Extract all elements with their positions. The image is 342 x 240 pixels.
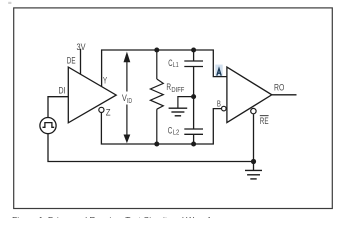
- junction dot capacitor midpoint: [191, 94, 196, 99]
- svg-text:ID: ID: [127, 98, 132, 105]
- svg-text:Y: Y: [103, 75, 108, 86]
- junction dot RDIFF top: [154, 48, 159, 53]
- wire RE to ground: [253, 114, 255, 161]
- svg-text:Z: Z: [106, 107, 111, 118]
- resistor RDIFF: [150, 50, 163, 144]
- svg-text:DIFF: DIFF: [171, 87, 184, 94]
- svg-text:L1: L1: [173, 62, 179, 69]
- svg-text:L2: L2: [173, 130, 180, 137]
- svg-text:DI: DI: [59, 86, 66, 97]
- svg-text:RE: RE: [260, 116, 269, 127]
- svg-text:3V: 3V: [77, 42, 86, 53]
- svg-text:B: B: [217, 99, 221, 109]
- wire DI input (generator to driver): [48, 97, 68, 118]
- label RE (active low): [260, 116, 269, 127]
- inversion bubble B input: [222, 106, 227, 111]
- capacitor CL2: [184, 97, 203, 144]
- label CL1: [168, 58, 178, 69]
- cropped text remnant top-left: [8, 2, 11, 4]
- driver U1: [68, 67, 116, 123]
- label RDIFF: [166, 82, 184, 94]
- figure border frame: [14, 8, 333, 209]
- receiver U2: [227, 67, 272, 123]
- ground symbol (capacitor midpoint): [169, 108, 188, 116]
- wire Y output to top rail: [102, 50, 227, 87]
- wire Z output to bottom rail: [101, 109, 221, 144]
- inversion bubble Z output: [99, 107, 104, 112]
- junction dot ground rail: [251, 159, 256, 164]
- junction dot CL1 top: [191, 48, 196, 53]
- node A (highlighted): [215, 65, 222, 76]
- junction dot RDIFF bottom: [154, 142, 159, 147]
- label VID: [121, 92, 134, 105]
- wire capacitor midpoint to ground: [178, 97, 194, 108]
- wire RO output: [272, 94, 297, 96]
- svg-text:Figure 1. Driver and Receiver: Figure 1. Driver and Receiver Test Circu…: [12, 215, 229, 218]
- V_ID measurement arrow: [124, 52, 131, 144]
- wire DE pin to 3V: [80, 49, 82, 75]
- junction dot CL2 bottom: [191, 142, 196, 147]
- label CL2: [168, 126, 180, 137]
- capacitor CL1: [184, 50, 203, 97]
- wire generator return to ground rail: [48, 134, 254, 162]
- svg-text:DE: DE: [67, 56, 76, 67]
- ground symbol (main): [245, 162, 262, 179]
- inversion bubble RE enable: [251, 108, 256, 113]
- pulse generator V1: [40, 118, 56, 134]
- svg-text:RO: RO: [274, 83, 284, 94]
